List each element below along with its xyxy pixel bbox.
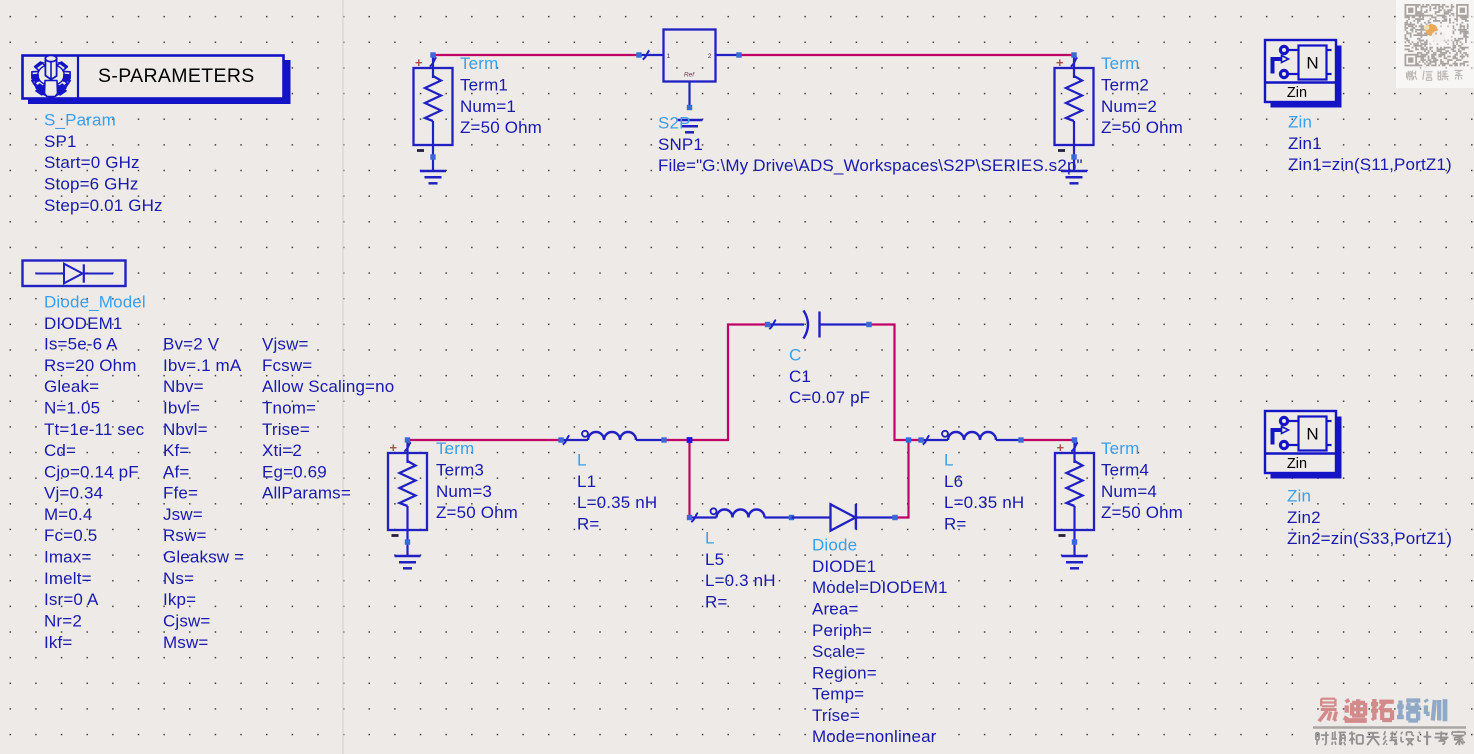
svg-text:Zin2: Zin2 bbox=[1287, 508, 1321, 527]
wire SNP1 to Term2 bbox=[739, 54, 1074, 56]
terminal Term2 bbox=[1055, 52, 1094, 171]
svg-text:Area=: Area= bbox=[812, 599, 859, 618]
svg-text:Num=2: Num=2 bbox=[1101, 97, 1157, 116]
ground of Term1 bbox=[420, 171, 446, 183]
svg-text:Ns=: Ns= bbox=[163, 569, 194, 588]
svg-text:Imax=: Imax= bbox=[44, 548, 92, 567]
svg-text:Term: Term bbox=[1101, 439, 1139, 458]
Zin probe icon Zin2 bbox=[1265, 411, 1342, 479]
svg-text:Zin1=zin(S11,PortZ1): Zin1=zin(S11,PortZ1) bbox=[1288, 155, 1452, 174]
svg-text:Tnom=: Tnom= bbox=[262, 398, 316, 417]
svg-text:Nbvl=: Nbvl= bbox=[163, 420, 208, 439]
svg-text:Imelt=: Imelt= bbox=[44, 569, 92, 588]
svg-text:Nbv=: Nbv= bbox=[163, 377, 204, 396]
svg-text:Term4: Term4 bbox=[1101, 461, 1149, 480]
svg-text:L=0.35 nH: L=0.35 nH bbox=[944, 493, 1024, 512]
svg-text:Term3: Term3 bbox=[436, 461, 484, 480]
ground of SNP1 ref bbox=[677, 120, 703, 132]
svg-text:R=: R= bbox=[577, 514, 600, 533]
svg-text:S-PARAMETERS: S-PARAMETERS bbox=[98, 65, 255, 87]
svg-text:Gleak=: Gleak= bbox=[44, 377, 99, 396]
svg-text:Kf=: Kf= bbox=[163, 441, 189, 460]
QR-code watermark bbox=[1396, 0, 1474, 88]
svg-text:Cd=: Cd= bbox=[44, 441, 76, 460]
svg-text:+: + bbox=[415, 55, 423, 70]
inductor L1 bbox=[558, 431, 666, 445]
watermark logo text bbox=[1313, 699, 1466, 746]
svg-text:Z=50 Ohm: Z=50 Ohm bbox=[1101, 118, 1183, 137]
svg-text:Fcsw=: Fcsw= bbox=[262, 356, 312, 375]
Diode_Model name labels bbox=[44, 293, 146, 333]
svg-text:L1: L1 bbox=[577, 472, 596, 491]
svg-text:AllParams=: AllParams= bbox=[262, 484, 351, 503]
svg-text:Af=: Af= bbox=[163, 462, 189, 481]
svg-text:Z=50 Ohm: Z=50 Ohm bbox=[1101, 503, 1183, 522]
wire Term3 to L1 bbox=[408, 439, 562, 441]
svg-text:Isr=0 A: Isr=0 A bbox=[44, 590, 99, 609]
svg-text:Zin2=zin(S33,PortZ1): Zin2=zin(S33,PortZ1) bbox=[1287, 529, 1452, 548]
svg-text:R=: R= bbox=[944, 514, 967, 533]
Zin1 labels bbox=[1288, 113, 1452, 175]
svg-text:Ikp=: Ikp= bbox=[163, 590, 196, 609]
L6 labels bbox=[944, 451, 1024, 534]
DIODE1 labels bbox=[812, 536, 948, 747]
terminal Term3 bbox=[388, 437, 427, 556]
svg-text:Vj=0.34: Vj=0.34 bbox=[44, 484, 103, 503]
svg-text:Model=DIODEM1: Model=DIODEM1 bbox=[812, 578, 948, 597]
svg-text:Zin: Zin bbox=[1287, 85, 1307, 101]
svg-text:Z=50 Ohm: Z=50 Ohm bbox=[460, 118, 542, 137]
capacitor C1 bbox=[765, 311, 872, 339]
svg-text:C=0.07 pF: C=0.07 pF bbox=[789, 388, 870, 407]
svg-text:Rsw=: Rsw= bbox=[163, 526, 207, 545]
svg-text:+: + bbox=[390, 440, 398, 455]
inductor L5 bbox=[687, 508, 794, 522]
wire diode to junction2 bbox=[895, 440, 909, 518]
svg-text:Trise=: Trise= bbox=[262, 420, 310, 439]
svg-text:L6: L6 bbox=[944, 472, 963, 491]
svg-text:Rs=20 Ohm: Rs=20 Ohm bbox=[44, 356, 137, 375]
diode-model symbol box bbox=[23, 261, 126, 287]
svg-text:L: L bbox=[944, 451, 954, 470]
svg-text:Term1: Term1 bbox=[460, 76, 508, 95]
svg-text:Ref: Ref bbox=[684, 72, 695, 79]
svg-text:Num=3: Num=3 bbox=[436, 482, 492, 501]
svg-text:Eg=0.69: Eg=0.69 bbox=[262, 462, 327, 481]
svg-text:2: 2 bbox=[708, 53, 712, 60]
junction node B bbox=[906, 437, 911, 442]
svg-text:Periph=: Periph= bbox=[812, 621, 872, 640]
svg-text:Ibv=.1 mA: Ibv=.1 mA bbox=[163, 356, 242, 375]
svg-text:Diode_Model: Diode_Model bbox=[44, 293, 146, 312]
svg-text:Vjsw=: Vjsw= bbox=[262, 335, 309, 354]
Term4 labels bbox=[1101, 439, 1183, 522]
SNP1 labels bbox=[658, 114, 1083, 176]
diode DIODE1 bbox=[792, 504, 898, 531]
C1 labels bbox=[789, 346, 870, 408]
svg-text:Zin: Zin bbox=[1287, 456, 1307, 472]
svg-text:Num=1: Num=1 bbox=[460, 97, 516, 116]
svg-text:C1: C1 bbox=[789, 367, 811, 386]
junction node A bbox=[687, 437, 693, 443]
wire Term1 to SNP1 bbox=[433, 54, 639, 56]
svg-text:L5: L5 bbox=[705, 550, 724, 569]
svg-text:Step=0.01 GHz: Step=0.01 GHz bbox=[44, 196, 163, 215]
svg-text:Gleaksw =: Gleaksw = bbox=[163, 548, 244, 567]
svg-text:Cjsw=: Cjsw= bbox=[163, 612, 211, 631]
L1 labels bbox=[577, 451, 657, 534]
svg-text:File="G:\My Drive\ADS_Workspac: File="G:\My Drive\ADS_Workspaces\S2P\SER… bbox=[658, 156, 1083, 175]
svg-text:Ikf=: Ikf= bbox=[44, 633, 72, 652]
svg-text:C: C bbox=[789, 346, 801, 365]
ground of Term2 bbox=[1061, 171, 1087, 183]
svg-text:Tt=1e-11 sec: Tt=1e-11 sec bbox=[44, 420, 145, 439]
svg-text:Scale=: Scale= bbox=[812, 642, 865, 661]
svg-text:1: 1 bbox=[667, 53, 671, 60]
svg-text:Nr=2: Nr=2 bbox=[44, 612, 82, 631]
svg-text:N: N bbox=[1306, 425, 1318, 444]
svg-text:S_Param: S_Param bbox=[44, 111, 116, 130]
svg-text:M=0.4: M=0.4 bbox=[44, 505, 92, 524]
wire junction down to L5 bbox=[688, 440, 690, 518]
svg-text:+: + bbox=[1057, 440, 1065, 455]
svg-text:L: L bbox=[705, 529, 715, 548]
svg-text:DIODE1: DIODE1 bbox=[812, 557, 876, 576]
svg-text:L: L bbox=[577, 451, 587, 470]
DIODEM1 params col1 labels bbox=[44, 335, 145, 652]
svg-text:Term2: Term2 bbox=[1101, 76, 1149, 95]
S_Param SP1 labels bbox=[44, 111, 163, 215]
Term1 labels bbox=[460, 54, 542, 137]
svg-text:Zin1: Zin1 bbox=[1288, 134, 1322, 153]
svg-text:Ffe=: Ffe= bbox=[163, 484, 198, 503]
svg-text:Trise=: Trise= bbox=[812, 706, 860, 725]
svg-text:Term: Term bbox=[436, 439, 474, 458]
svg-text:Fc=0.5: Fc=0.5 bbox=[44, 526, 97, 545]
ground of Term4 bbox=[1062, 556, 1088, 568]
svg-text:Z=50 Ohm: Z=50 Ohm bbox=[436, 503, 518, 522]
terminal Term4 bbox=[1055, 437, 1094, 556]
svg-text:Cjo=0.14 pF: Cjo=0.14 pF bbox=[44, 462, 139, 481]
svg-text:+: + bbox=[1056, 55, 1064, 70]
L5 labels bbox=[705, 529, 776, 612]
svg-text:L=0.3 nH: L=0.3 nH bbox=[705, 571, 776, 590]
svg-text:Diode: Diode bbox=[812, 536, 857, 555]
svg-text:Is=5e-6 A: Is=5e-6 A bbox=[44, 335, 118, 354]
svg-text:SP1: SP1 bbox=[44, 132, 77, 151]
svg-text:Jsw=: Jsw= bbox=[163, 505, 203, 524]
Term2 labels bbox=[1101, 54, 1183, 137]
svg-text:S2P: S2P bbox=[658, 114, 691, 133]
inductor L6 bbox=[918, 431, 1023, 445]
DIODEM1 params col3 labels bbox=[262, 335, 394, 503]
wire L1 to junction and C1 riser bbox=[664, 325, 768, 441]
svg-text:Zin: Zin bbox=[1287, 487, 1311, 506]
svg-text:Allow Scaling=no: Allow Scaling=no bbox=[262, 377, 394, 396]
svg-text:DIODEM1: DIODEM1 bbox=[44, 314, 123, 333]
svg-text:Zin: Zin bbox=[1288, 113, 1312, 132]
svg-text:Num=4: Num=4 bbox=[1101, 482, 1157, 501]
Zin probe icon Zin1 bbox=[1265, 40, 1342, 108]
Zin2 labels bbox=[1287, 487, 1452, 548]
svg-text:Start=0 GHz: Start=0 GHz bbox=[44, 153, 140, 172]
S2P block SNP1 bbox=[636, 30, 741, 111]
svg-text:Region=: Region= bbox=[812, 663, 877, 682]
terminal Term1 bbox=[414, 52, 453, 171]
svg-text:Msw=: Msw= bbox=[163, 633, 208, 652]
svg-text:Xti=2: Xti=2 bbox=[262, 441, 302, 460]
grid major line bbox=[342, 0, 344, 754]
svg-text:Stop=6 GHz: Stop=6 GHz bbox=[44, 175, 139, 194]
wire L6 to Term4 bbox=[1021, 439, 1075, 441]
svg-text:SNP1: SNP1 bbox=[658, 135, 703, 154]
Term3 labels bbox=[436, 439, 518, 522]
svg-text:N: N bbox=[1306, 54, 1318, 73]
wire C1 right to junction2 bbox=[869, 325, 921, 441]
DIODEM1 params col2 labels bbox=[163, 335, 244, 652]
S-PARAMETERS controller box bbox=[23, 56, 291, 105]
svg-text:Term: Term bbox=[1101, 54, 1139, 73]
svg-text:Ibvl=: Ibvl= bbox=[163, 398, 200, 417]
svg-text:R=: R= bbox=[705, 592, 728, 611]
QR caption (WeChat contact) bbox=[1407, 70, 1417, 80]
svg-text:Mode=nonlinear: Mode=nonlinear bbox=[812, 727, 937, 746]
svg-text:Bv=2 V: Bv=2 V bbox=[163, 335, 220, 354]
svg-text:N=1.05: N=1.05 bbox=[44, 398, 100, 417]
svg-text:Temp=: Temp= bbox=[812, 685, 864, 704]
gear icon bbox=[32, 55, 71, 97]
svg-text:Term: Term bbox=[460, 54, 498, 73]
svg-text:L=0.35 nH: L=0.35 nH bbox=[577, 493, 657, 512]
ground of Term3 bbox=[395, 556, 421, 568]
